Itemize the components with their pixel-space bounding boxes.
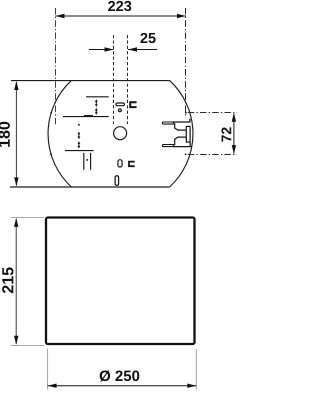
dashed centerline right (25 dim) — [127, 35, 129, 124]
plate left arc — [48, 81, 71, 187]
clamp C small — [129, 162, 135, 167]
dimension 25 lines — [89, 49, 157, 51]
mounting bracket right: bottom line — [173, 146, 192, 148]
extension right (250) — [195, 349, 197, 390]
mounting bracket right: bottom slot — [162, 145, 173, 147]
clamp C top — [130, 102, 136, 107]
arc crossing dot left-top — [50, 112, 52, 114]
dimension 215 shaft — [15, 219, 17, 344]
label 215 — [2, 267, 13, 293]
bracket legs — [84, 153, 91, 170]
bracket bar to bottom line connector — [189, 142, 191, 147]
interior line A — [86, 96, 109, 98]
bottom edge slot — [115, 176, 119, 186]
label 223 — [108, 1, 131, 11]
tiny diamond — [78, 146, 79, 147]
dot between legs — [86, 159, 88, 161]
arrow 250 right — [187, 384, 196, 388]
extension top (215) — [11, 217, 45, 219]
dimension 223 line — [56, 15, 187, 17]
dimension 180 shaft — [15, 82, 17, 186]
plate right arc — [170, 81, 193, 187]
arc crossing dot left-bottom — [50, 153, 52, 155]
arrow 215 bottom — [14, 336, 18, 345]
mounting bracket right: bottom pocket — [174, 137, 187, 145]
extension bottom (215) — [11, 344, 45, 346]
small dot — [78, 124, 80, 126]
label 180 — [0, 122, 10, 147]
arrow 250 left — [48, 384, 57, 388]
cable slot stadium — [116, 103, 124, 106]
arc crossing dot right-bottom — [185, 153, 187, 155]
adj arrow 4 — [78, 141, 81, 148]
arc crossing dot right-top — [185, 112, 187, 114]
arrow 180 top — [14, 81, 18, 90]
mounting bracket right: key bar — [186, 126, 190, 142]
mounting bracket right: top pocket — [174, 124, 187, 130]
arrow 180 bottom — [14, 177, 18, 186]
label 25 — [140, 33, 155, 43]
adj arrow 3 — [78, 132, 81, 140]
horizontal centerline 72-top — [188, 112, 237, 114]
centerline right (223 dim) — [185, 8, 187, 118]
center hole — [114, 127, 127, 140]
label 72 — [221, 127, 231, 141]
plate top flat edge + left extension — [11, 80, 170, 82]
mounting bracket right: top line — [173, 119, 190, 122]
extension left (250) — [47, 349, 49, 390]
arrow 72 top — [232, 113, 236, 122]
arrow 223 right — [177, 14, 186, 18]
small screw circle — [119, 109, 122, 112]
horizontal centerline 72-bottom — [188, 154, 237, 156]
dashed centerline left (25 dim) — [113, 35, 115, 124]
mounting bracket right: top slot — [162, 122, 173, 124]
interior line B — [63, 116, 109, 118]
dimension 250 line — [48, 385, 197, 387]
label 250 — [100, 370, 140, 381]
centerline left (223 dim) — [55, 8, 57, 125]
dimension 72 shaft — [233, 114, 235, 154]
interior line B bump — [84, 115, 93, 117]
adj arrow 2 — [95, 108, 98, 115]
interior line C — [65, 150, 94, 152]
arrow 223 left — [56, 14, 65, 18]
plate bottom flat edge + left extension — [10, 186, 170, 188]
arrow 25 right (points left) — [128, 47, 137, 51]
shade outline — [46, 218, 195, 345]
arrow 72 bottom — [232, 145, 236, 154]
adj arrow 1 — [95, 99, 98, 107]
arrow 25 left (points right) — [105, 47, 114, 51]
vertical slot stadium — [118, 160, 122, 167]
arrow 215 top — [14, 218, 18, 227]
